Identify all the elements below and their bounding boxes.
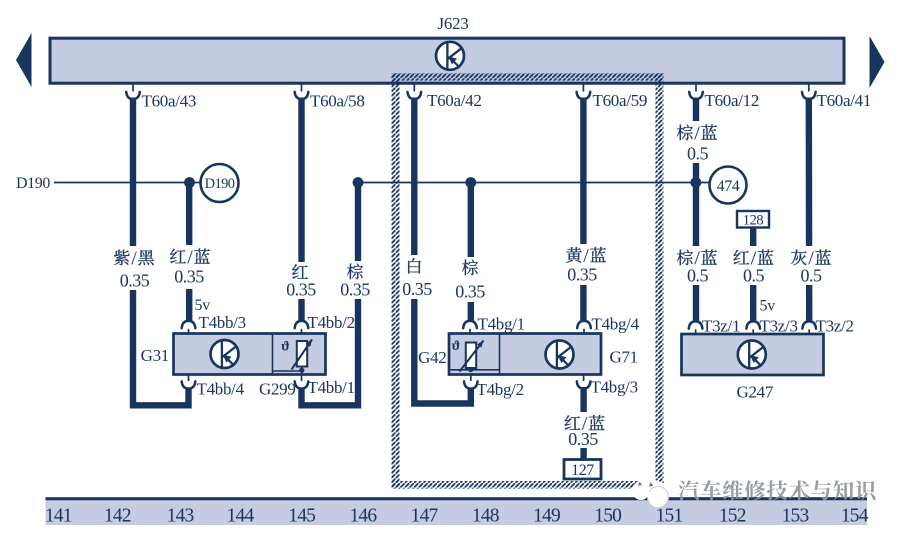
svg-text:0.35: 0.35 — [286, 280, 316, 300]
svg-text:T4bb/1: T4bb/1 — [308, 378, 355, 397]
svg-text:153: 153 — [782, 505, 809, 526]
pin T4bg/2 — [464, 375, 524, 399]
pin T4bb/1 — [295, 375, 355, 397]
wire red/blue 0.35 from G71 T4bg/3 down to connector 127 — [577, 375, 591, 459]
svg-text:142: 142 — [104, 505, 131, 526]
svg-text:/: / — [583, 245, 589, 267]
svg-text:T4bb/3: T4bb/3 — [199, 313, 246, 332]
component label G71 — [610, 348, 638, 367]
svg-text:154: 154 — [841, 505, 869, 526]
svg-text:0.35: 0.35 — [567, 265, 597, 285]
svg-text:152: 152 — [719, 505, 746, 526]
wire T60a/42 white 0.35 (J623 to G42 T4bg/2) — [408, 85, 471, 404]
svg-text:5v: 5v — [760, 298, 776, 315]
svg-text:0.5: 0.5 — [687, 144, 709, 164]
svg-text:ϑ: ϑ — [281, 340, 289, 355]
svg-text:127: 127 — [571, 462, 594, 479]
connector box 128 — [737, 211, 769, 228]
junction dot at 474 node — [690, 177, 701, 188]
svg-text:T4bb/4: T4bb/4 — [197, 380, 245, 399]
sensor symbol G247 — [738, 341, 766, 369]
svg-text:ϑ: ϑ — [452, 339, 460, 354]
current track band — [46, 497, 868, 525]
pin label T60a/59 — [593, 91, 648, 110]
svg-text:T60a/43: T60a/43 — [142, 92, 197, 111]
wire T60a/58 red 0.35 (J623 to G31 T4bb/2) — [295, 85, 309, 322]
svg-text:T60a/42: T60a/42 — [427, 91, 482, 110]
svg-text:T3z/3: T3z/3 — [760, 317, 798, 336]
wire colour label grey/blue 0.5 — [791, 246, 832, 286]
wire: node line from D190 label to node circle — [54, 182, 201, 184]
svg-text:G71: G71 — [610, 348, 638, 367]
node label D190 — [16, 175, 50, 192]
pin T4bb/3 — [182, 313, 246, 334]
pin T3z/2 — [802, 317, 853, 336]
svg-text:/: / — [694, 122, 700, 144]
track numbers — [45, 505, 869, 526]
svg-text:0.35: 0.35 — [455, 282, 485, 302]
svg-text:/: / — [131, 247, 137, 269]
pin label T60a/41 — [817, 91, 872, 110]
supply label 5v (right) — [760, 298, 776, 315]
svg-text:T4bg/3: T4bg/3 — [591, 378, 638, 397]
svg-text:149: 149 — [533, 505, 560, 526]
wire colour label red/blue 0.5 — [734, 246, 774, 286]
wire brown 0.35 from node line to G31 T4bb/1 (via bottom elbow) — [302, 182, 359, 405]
svg-text:150: 150 — [594, 505, 621, 526]
svg-text:0.35: 0.35 — [402, 279, 432, 299]
pin T3z/1 — [689, 317, 740, 336]
svg-text:147: 147 — [411, 505, 439, 526]
svg-text:0.5: 0.5 — [801, 266, 823, 286]
svg-text:T60a/58: T60a/58 — [310, 92, 365, 111]
right continuation arrow — [870, 36, 885, 88]
sensor symbol G71 — [546, 341, 574, 369]
pin label T60a/43 — [142, 92, 197, 111]
svg-text:143: 143 — [167, 505, 194, 526]
svg-text:G299: G299 — [259, 380, 296, 399]
wire red/blue 0.5 from connector 128 to G247 T3z/3 — [750, 228, 756, 322]
watermark logo — [632, 480, 669, 508]
wire T60a/41 grey/blue 0.5 (J623 to G247 T3z/2) — [802, 85, 816, 322]
ECU bus bar J623 (border) — [50, 38, 844, 83]
svg-text:T4bb/2: T4bb/2 — [308, 313, 355, 332]
wire colour label red/blue 0.35 (bottom, to 127) — [562, 412, 607, 449]
hatched border (left band) — [392, 73, 400, 489]
wire colour label brown/blue 0.5 (upper) — [677, 121, 718, 164]
wire colour label brown 0.35 (left) — [337, 261, 374, 300]
svg-text:T4bg/1: T4bg/1 — [478, 315, 525, 334]
wire colour label red 0.35 — [283, 262, 320, 300]
wire T60a/12 brown/blue 0.5 (J623 through node to G247 T3z/1) — [689, 85, 703, 322]
svg-text:0.5: 0.5 — [687, 266, 709, 286]
pin T4bb/4 — [182, 375, 245, 399]
svg-text:G42: G42 — [418, 348, 446, 367]
connector box 127 — [564, 460, 601, 480]
svg-text:/: / — [187, 246, 193, 268]
svg-text:T4bg/4: T4bg/4 — [592, 315, 640, 334]
wire colour label white 0.35 — [401, 255, 435, 299]
label J623 — [438, 14, 469, 33]
svg-text:0.35: 0.35 — [120, 271, 150, 291]
wire T60a/59 yellow/blue 0.35 (J623 to G71 T4bg/4) — [577, 85, 591, 322]
wire colour label brown 0.35 (right) — [452, 257, 489, 302]
component label G247 — [737, 383, 774, 402]
hatched border (bottom band) — [392, 481, 664, 489]
wire brown 0.35 from node line to G42 T4bg/1 — [468, 182, 474, 321]
svg-text:474: 474 — [717, 178, 740, 195]
pin T4bg/4 — [577, 315, 639, 334]
svg-text:141: 141 — [45, 505, 72, 526]
wire colour label brown/blue 0.5 (lower) — [677, 246, 718, 286]
sensor unit box G42/G71 — [449, 334, 601, 375]
component label G299 — [259, 380, 296, 399]
wire colour label red/blue 0.35 (left) — [167, 245, 213, 289]
hatched border (right band) — [656, 73, 664, 489]
svg-text:146: 146 — [349, 505, 377, 526]
wire T60a/43 purple/black 0.35 (J623 to G31 T4bb/4) — [126, 85, 188, 406]
svg-text:T4bg/2: T4bg/2 — [477, 380, 524, 399]
svg-text:D190: D190 — [16, 175, 50, 192]
svg-text:J623: J623 — [438, 14, 469, 33]
wire colour label purple/black 0.35 — [113, 246, 155, 291]
ECU bus bar J623 (fill) — [49, 37, 846, 85]
node circle 474 — [710, 167, 747, 204]
sensor symbol G31 — [211, 340, 239, 368]
svg-text:0.35: 0.35 — [340, 280, 370, 300]
pin T4bg/1 — [463, 315, 525, 334]
svg-text:T60a/59: T60a/59 — [593, 91, 648, 110]
pin label T60a/12 — [705, 91, 760, 110]
svg-text:G31: G31 — [141, 346, 169, 365]
svg-text:148: 148 — [472, 505, 499, 526]
component label G31 — [141, 346, 169, 365]
supply label 5v (left) — [195, 297, 211, 314]
component label G42 — [418, 348, 446, 367]
sensor symbol inside J623 bar — [436, 42, 464, 70]
pin T3z/3 — [746, 317, 797, 336]
svg-text:0.35: 0.35 — [568, 429, 598, 449]
thermistor G299 (NTC) — [273, 340, 313, 375]
junction dot (brown wire, right) — [465, 177, 476, 188]
left continuation arrow — [16, 33, 32, 87]
svg-text:144: 144 — [227, 505, 255, 526]
svg-text:T60a/41: T60a/41 — [817, 91, 872, 110]
wire: node line (sensor ground bus) — [358, 182, 710, 184]
svg-text:D190: D190 — [205, 176, 235, 192]
svg-text:T3z/1: T3z/1 — [702, 317, 740, 336]
svg-text:0.5: 0.5 — [743, 266, 765, 286]
sensor unit box G31/G299 — [174, 334, 326, 375]
pin label T4bg/3 — [591, 378, 638, 397]
svg-text:G247: G247 — [737, 383, 774, 402]
wire red/blue 0.35 from node D190 to G31 T4bb/3 — [186, 182, 192, 321]
svg-text:128: 128 — [743, 212, 764, 228]
watermark text 汽车维修技术与知识 — [679, 480, 876, 500]
junction dot at D190 node — [184, 177, 195, 188]
pin label T60a/58 — [310, 92, 365, 111]
svg-text:5v: 5v — [195, 297, 211, 314]
svg-text:145: 145 — [288, 505, 315, 526]
node circle D190 — [201, 164, 239, 202]
pin T4bb/2 — [295, 313, 355, 334]
svg-text:151: 151 — [656, 505, 683, 526]
hatched border of dashed function box (top band) — [392, 73, 664, 81]
pin label T60a/42 — [427, 91, 482, 110]
svg-text:T3z/2: T3z/2 — [816, 317, 854, 336]
svg-text:0.35: 0.35 — [174, 267, 204, 287]
thermistor G42 (NTC) — [450, 339, 499, 372]
junction dot (brown wire, left) — [353, 177, 364, 188]
svg-text:T60a/12: T60a/12 — [705, 91, 760, 110]
wire colour label yellow/blue 0.35 — [560, 244, 610, 285]
sensor unit box G247 — [682, 334, 824, 375]
